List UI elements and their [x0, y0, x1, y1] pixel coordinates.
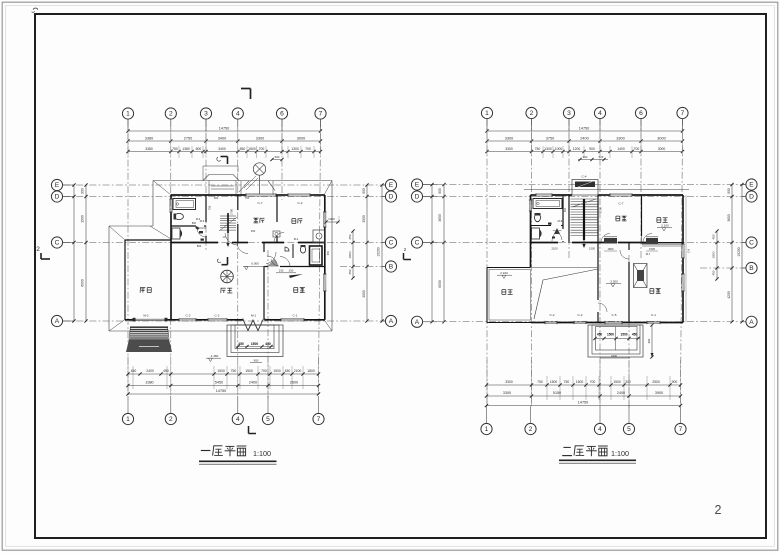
- living bedroom wall x264: [263, 243, 265, 253]
- kitchen label 厨房: [292, 218, 296, 220]
- svg-text:900: 900: [563, 207, 567, 212]
- axis bubble E right side-right plan: [746, 179, 757, 190]
- svg-text:900: 900: [81, 188, 85, 194]
- svg-text:130: 130: [279, 269, 284, 273]
- svg-text:C-5: C-5: [612, 313, 617, 317]
- svg-text:750: 750: [537, 380, 543, 384]
- svg-text:3300: 3300: [505, 136, 513, 140]
- right plan top dim row detail: [487, 151, 683, 153]
- svg-text:3750: 3750: [546, 136, 554, 140]
- svg-text:450: 450: [712, 270, 716, 275]
- svg-text:C-2: C-2: [186, 314, 191, 318]
- svg-text:450: 450: [348, 269, 352, 274]
- stairwell tower roof: [203, 165, 238, 167]
- roof overhang outline left plan: [153, 180, 332, 182]
- dining door arc: [237, 243, 248, 254]
- svg-text:C-1: C-1: [293, 314, 298, 318]
- interior wall x629 lower: [628, 243, 630, 251]
- svg-text:900: 900: [254, 359, 259, 363]
- svg-text:1500: 1500: [576, 380, 584, 384]
- living room label 客厅: [221, 287, 226, 289]
- window bath left wall right plan: [528, 200, 530, 211]
- axis bubble 2 bottom-left plan: [170, 396, 172, 413]
- window C-2 bottom living1: [179, 318, 196, 320]
- washbasin bath1: [172, 228, 180, 239]
- axis bubble 2 top-left plan: [165, 108, 176, 119]
- right plan grid verticals: [486, 119, 488, 406]
- svg-text:1:100: 1:100: [253, 449, 271, 458]
- axis bubble 1 bottom-left plan: [127, 396, 129, 413]
- bathroom2 door arc2: [280, 257, 290, 267]
- bath1 door blobs: [195, 226, 199, 230]
- door arc x629: [620, 250, 629, 259]
- svg-text:750: 750: [564, 380, 570, 384]
- washbasin right plan: [532, 228, 540, 239]
- svg-text:700: 700: [590, 380, 596, 384]
- svg-text:1500: 1500: [251, 342, 259, 346]
- axis bubble 5 bottom-right plan: [628, 406, 630, 423]
- right plan left dim chain inner: [443, 185, 445, 322]
- section mark living room: [227, 257, 229, 265]
- svg-text:C-1: C-1: [651, 313, 656, 317]
- right wall right plan: [682, 195, 684, 244]
- svg-text:6000: 6000: [81, 279, 85, 287]
- bedroom terrace wall x641: [641, 195, 643, 236]
- window C-7 top wall right plan: [610, 193, 632, 195]
- balcony nested rects: [588, 325, 643, 357]
- bay window roof: [239, 181, 249, 192]
- svg-text:3: 3: [567, 110, 571, 117]
- bath wall x563 right plan: [562, 195, 564, 229]
- axis bubble A left side-left plan: [51, 315, 62, 326]
- terrace walls bottom-left: [487, 267, 531, 269]
- svg-text:900: 900: [672, 380, 678, 384]
- svg-text:550: 550: [240, 147, 246, 151]
- hall door arc right plan: [552, 237, 555, 239]
- svg-text:3300: 3300: [505, 147, 513, 151]
- kitchen counter: [313, 230, 325, 243]
- stairs first floor: [220, 215, 236, 217]
- svg-text:E: E: [55, 182, 60, 189]
- svg-text:1500: 1500: [649, 247, 655, 251]
- left plan right dim chain rooms: [366, 185, 368, 321]
- svg-text:10200: 10200: [737, 247, 741, 256]
- axis bubble D left side-right plan: [411, 191, 422, 202]
- svg-text:5150: 5150: [553, 391, 561, 395]
- svg-text:520: 520: [599, 155, 604, 159]
- balcony door sill terrace: [646, 238, 658, 244]
- svg-text:D: D: [749, 194, 754, 201]
- entrance steps hatched: [130, 327, 168, 329]
- left plan grid horizontals: [63, 184, 385, 186]
- bedroom1 door arc: [601, 234, 610, 243]
- svg-text:C-2: C-2: [215, 314, 220, 318]
- axis bubble C left side-left plan: [51, 237, 62, 248]
- window C-2 bottom living2: [208, 318, 227, 320]
- svg-text:900: 900: [727, 188, 731, 194]
- svg-text:2400: 2400: [249, 381, 257, 385]
- svg-text:10200: 10200: [377, 247, 381, 256]
- balcony door sill bedroom1: [604, 238, 617, 244]
- axis bubble 1 top-left plan: [122, 108, 133, 119]
- axis bubble C right side-right plan: [746, 237, 757, 248]
- window bedroom right wall: [323, 274, 325, 291]
- window C-2 bottom right plan 2: [574, 320, 586, 322]
- floor drain circle living: [221, 270, 234, 283]
- svg-text:2: 2: [169, 111, 173, 118]
- svg-text:3650: 3650: [727, 214, 731, 222]
- svg-text:C: C: [55, 240, 60, 247]
- svg-text:3000: 3000: [657, 136, 665, 140]
- window C-1 bottom bedroom: [281, 318, 304, 320]
- left plan overall top dim 14750: [128, 130, 321, 132]
- svg-text:M-1: M-1: [251, 314, 257, 318]
- axis bubble 2 bottom-right plan: [530, 406, 532, 423]
- stair wall x598 right plan upper: [597, 195, 599, 243]
- svg-text:1200: 1200: [573, 147, 581, 151]
- axis bubble 1 bottom-right plan: [486, 406, 488, 423]
- dining kitchen wall x277: [276, 195, 278, 222]
- svg-text:3500: 3500: [362, 215, 366, 223]
- svg-text:3300: 3300: [256, 136, 264, 140]
- svg-text:450: 450: [251, 229, 256, 233]
- bottom wall right plan: [532, 322, 545, 324]
- svg-text:1: 1: [126, 416, 130, 423]
- axis bubble 7 top-left plan: [315, 108, 326, 119]
- svg-text:B: B: [749, 265, 754, 272]
- svg-text:2: 2: [529, 426, 533, 433]
- axis bubble 4 bottom-left plan: [237, 396, 239, 413]
- svg-text:1800: 1800: [712, 251, 716, 258]
- svg-text:3.300: 3.300: [610, 280, 618, 284]
- svg-text:2.100: 2.100: [661, 224, 669, 228]
- svg-text:D: D: [415, 194, 420, 201]
- svg-text:3000: 3000: [297, 136, 305, 140]
- svg-text:C: C: [389, 240, 394, 247]
- svg-text:7: 7: [679, 426, 683, 433]
- axis bubble D right side-right plan: [746, 191, 757, 202]
- axis bubble C left side-right plan: [411, 237, 422, 248]
- svg-text:14750: 14750: [579, 126, 590, 130]
- svg-text:3300: 3300: [616, 136, 624, 140]
- svg-text:4: 4: [598, 426, 602, 433]
- right plan bottom dim row axis: [487, 395, 681, 397]
- bathroom2 divider: [292, 244, 294, 258]
- svg-text:450: 450: [163, 369, 169, 373]
- svg-text:2600: 2600: [290, 381, 298, 385]
- bath1 door arc: [197, 228, 206, 237]
- svg-text:3500: 3500: [81, 215, 85, 223]
- right plan grid horizontals: [423, 184, 745, 186]
- svg-text:7: 7: [681, 110, 685, 117]
- roof offset line right of wall: [685, 195, 687, 323]
- terrace label 露台 bottom-left: [502, 289, 506, 291]
- svg-text:C-4: C-4: [582, 175, 587, 179]
- svg-text:5450: 5450: [215, 381, 223, 385]
- svg-text:C-2: C-2: [298, 201, 303, 205]
- svg-text:750: 750: [535, 147, 541, 151]
- left plan top extension lines: [127, 127, 129, 155]
- axis bubble D left side-left plan: [51, 191, 62, 202]
- svg-text:-1.480: -1.480: [210, 354, 219, 358]
- axis bubble 4 bottom-right plan: [599, 406, 601, 423]
- svg-text:1000: 1000: [555, 147, 563, 151]
- svg-text:3380: 3380: [145, 147, 153, 151]
- door arc x598: [598, 303, 607, 312]
- right plan right dim window chain: [716, 231, 718, 279]
- axis bubble 3 top-left plan: [200, 108, 211, 119]
- svg-text:M-4: M-4: [294, 237, 299, 241]
- svg-text:1380: 1380: [182, 147, 190, 151]
- bedroom label 卧室: [294, 287, 298, 289]
- svg-text:700: 700: [634, 147, 640, 151]
- svg-text:7: 7: [317, 416, 321, 423]
- svg-text:C-2: C-2: [550, 313, 555, 317]
- svg-text:450: 450: [348, 234, 352, 239]
- svg-text:750: 750: [172, 147, 178, 151]
- svg-text:2: 2: [715, 503, 722, 517]
- svg-text:450: 450: [632, 333, 638, 337]
- svg-text:A: A: [749, 319, 754, 326]
- svg-text:450: 450: [597, 333, 603, 337]
- axis bubble 1 top-right plan: [481, 107, 492, 118]
- svg-text:4: 4: [598, 110, 602, 117]
- axis bubble 5 bottom-left plan: [267, 396, 269, 413]
- svg-text:600: 600: [275, 155, 280, 159]
- svg-text:2700: 2700: [230, 209, 234, 215]
- window right wall C-6: [681, 244, 683, 258]
- chimney box C-4: [572, 180, 598, 196]
- kitchen door arc: [274, 233, 284, 243]
- svg-text:M-7: M-7: [646, 252, 651, 256]
- roofline above top wall right plan: [524, 189, 689, 191]
- entry door M-1 zigzag: [243, 320, 263, 331]
- svg-text:0.000: 0.000: [251, 262, 259, 266]
- bathtub right plan: [533, 199, 562, 209]
- svg-text:4550: 4550: [362, 290, 366, 298]
- garage label 车库: [140, 287, 145, 289]
- svg-text:14750: 14750: [578, 401, 589, 405]
- svg-text:3: 3: [204, 111, 208, 118]
- right plan bottom dim row detail: [487, 384, 681, 386]
- svg-text:3400: 3400: [218, 136, 226, 140]
- window right wall lower: [681, 274, 683, 291]
- axis bubble B right side-left plan: [385, 261, 396, 272]
- svg-text:1500: 1500: [273, 369, 281, 373]
- section mark above plan: [221, 156, 228, 158]
- svg-text:5: 5: [266, 416, 270, 423]
- bath stair wall x206: [205, 195, 207, 222]
- svg-text:1: 1: [485, 426, 489, 433]
- axis bubble A right side-right plan: [746, 316, 757, 327]
- svg-text:900: 900: [214, 196, 219, 200]
- bathroom2 tub: [310, 246, 323, 265]
- svg-text:2750: 2750: [184, 136, 192, 140]
- axis bubble D right side-left plan: [385, 191, 396, 202]
- left plan right dim chain window: [352, 231, 354, 278]
- bath1 divider wall: [171, 225, 196, 227]
- svg-text:6: 6: [280, 111, 284, 118]
- right plan overall top dim 14750: [487, 130, 683, 132]
- terrace railing top right: [642, 243, 683, 245]
- left wall upper left plan: [170, 195, 172, 199]
- axis bubble 7 bottom-left plan: [318, 396, 320, 413]
- svg-text:450: 450: [712, 234, 716, 239]
- right plan top extension lines: [486, 127, 488, 155]
- left plan bottom dim row detail: [128, 373, 319, 375]
- title second floor plan 二层平面: [563, 446, 570, 448]
- kitchen sink mark: [273, 231, 280, 237]
- svg-text:1500: 1500: [589, 247, 595, 251]
- svg-text:3380: 3380: [145, 381, 153, 385]
- window bathroom left wall: [169, 199, 171, 212]
- roof vent circle: [253, 163, 265, 175]
- bathroom2 basin: [285, 247, 289, 251]
- flue box with X: [634, 264, 648, 288]
- svg-text:E: E: [415, 182, 420, 189]
- svg-text:3400: 3400: [218, 147, 226, 151]
- svg-text:2100: 2100: [294, 369, 302, 373]
- terrace label 露台 top-right: [657, 217, 661, 219]
- svg-text:5: 5: [627, 426, 631, 433]
- axis bubble C right side-left plan: [385, 237, 396, 248]
- window C-2 top wall kitchen: [288, 193, 310, 195]
- left plan right dim overall: [381, 185, 383, 321]
- garage door M-2 lines: [135, 318, 165, 320]
- svg-text:M-5: M-5: [200, 219, 205, 223]
- svg-text:1500: 1500: [217, 369, 225, 373]
- svg-text:900: 900: [583, 155, 588, 159]
- svg-text:1: 1: [126, 111, 130, 118]
- garage walls: [125, 239, 171, 241]
- svg-text:A: A: [55, 318, 60, 325]
- svg-text:4200: 4200: [727, 291, 731, 299]
- left plan bottom overall 14750: [128, 393, 319, 395]
- title underline left: [199, 460, 277, 462]
- svg-text:1:100: 1:100: [611, 449, 629, 458]
- left plan top dim row axis spacings: [128, 140, 321, 142]
- svg-text:1500: 1500: [613, 380, 621, 384]
- axis bubble 6 top-right plan: [635, 107, 646, 118]
- svg-text:E: E: [389, 182, 394, 189]
- svg-text:700: 700: [305, 147, 311, 151]
- svg-text:2400: 2400: [617, 391, 625, 395]
- svg-text:3300: 3300: [503, 391, 511, 395]
- section mark top of page: [241, 88, 251, 90]
- svg-text:C: C: [749, 240, 754, 247]
- window C-2 bottom right plan 1: [545, 320, 557, 322]
- bedroom label bottom 卧室: [650, 288, 654, 290]
- svg-text:300: 300: [625, 380, 631, 384]
- svg-text:1500: 1500: [607, 333, 614, 337]
- svg-text:C-7: C-7: [258, 201, 263, 205]
- svg-text:M-2: M-2: [143, 314, 149, 318]
- right wall left plan: [324, 195, 326, 212]
- svg-text:1800: 1800: [608, 247, 614, 251]
- terrace door arc: [643, 234, 652, 243]
- svg-text:1500: 1500: [248, 147, 256, 151]
- svg-text:450: 450: [131, 369, 137, 373]
- top wall right plan: [531, 194, 537, 196]
- entry porch nested rects: [227, 325, 283, 357]
- svg-text:2500: 2500: [652, 380, 660, 384]
- axis bubble A left side-right plan: [411, 316, 422, 327]
- svg-text:3300: 3300: [505, 380, 513, 384]
- svg-text:1300: 1300: [544, 147, 552, 151]
- svg-text:2400: 2400: [146, 369, 154, 373]
- svg-text:2: 2: [530, 110, 534, 117]
- bathroom2 door fan: [267, 256, 278, 267]
- axis bubble 4 top-left plan: [232, 108, 243, 119]
- svg-text:900: 900: [362, 188, 366, 194]
- right plan right dim rooms: [731, 185, 733, 322]
- svg-text:7: 7: [319, 111, 323, 118]
- svg-text:750: 750: [231, 369, 237, 373]
- title first floor plan 一层平面: [201, 450, 211, 452]
- svg-text:3600: 3600: [438, 214, 442, 222]
- svg-text:800: 800: [197, 244, 202, 248]
- svg-text:250: 250: [289, 269, 294, 273]
- svg-text:900: 900: [647, 338, 651, 343]
- svg-text:600: 600: [196, 147, 202, 151]
- svg-text:14750: 14750: [216, 389, 227, 393]
- window C-5 bottom right plan: [605, 320, 622, 322]
- svg-text:700: 700: [261, 369, 267, 373]
- toilet bath1: [175, 213, 184, 219]
- svg-text:M-6: M-6: [558, 219, 563, 223]
- svg-text:1300: 1300: [328, 217, 335, 221]
- svg-text:C-6: C-6: [687, 248, 691, 253]
- axis bubble 7 bottom-right plan: [680, 406, 682, 423]
- roof hip diagonals left plan: [153, 181, 171, 196]
- svg-text:1300: 1300: [291, 147, 299, 151]
- bottom wall left plan: [125, 319, 133, 321]
- svg-text:E: E: [749, 182, 754, 189]
- stair hall door arc: [225, 233, 237, 245]
- right plan bottom overall 14750: [487, 405, 681, 407]
- right plan top dim row axis: [487, 140, 683, 142]
- axis bubble E left side-left plan: [51, 179, 62, 190]
- title underline right: [559, 459, 636, 461]
- svg-text:2100: 2100: [552, 247, 558, 251]
- axis bubble A right side-left plan: [385, 315, 396, 326]
- right plan left dim chain outer: [431, 185, 433, 322]
- dining label 餐厅: [253, 217, 258, 219]
- toilet right plan: [535, 213, 541, 221]
- svg-text:450: 450: [285, 369, 291, 373]
- axis bubble 3 top-right plan: [563, 107, 574, 118]
- svg-text:2400: 2400: [580, 136, 588, 140]
- left plan grid verticals: [127, 120, 129, 396]
- svg-text:800: 800: [192, 222, 197, 225]
- svg-text:A: A: [389, 318, 394, 325]
- svg-text:C: C: [415, 240, 420, 247]
- svg-text:D: D: [389, 194, 394, 201]
- roof slope diagonal: [534, 269, 598, 319]
- axis bubble B right side-right plan: [746, 262, 757, 273]
- svg-text:6000: 6000: [438, 280, 442, 288]
- svg-text:B: B: [389, 264, 394, 271]
- svg-text:1500: 1500: [620, 333, 627, 337]
- svg-text:4: 4: [236, 111, 240, 118]
- balcony right dim 900: [651, 325, 653, 357]
- svg-text:14750: 14750: [219, 126, 230, 130]
- svg-text:700: 700: [245, 196, 250, 200]
- axis bubble 2 top-right plan: [526, 107, 537, 118]
- window kitchen right wall: [323, 212, 325, 227]
- svg-text:1500: 1500: [550, 380, 558, 384]
- svg-text:2: 2: [36, 246, 40, 253]
